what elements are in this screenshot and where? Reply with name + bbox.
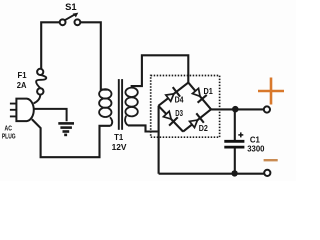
AC plug	[10, 99, 34, 122]
plus symbol (orange)	[258, 78, 284, 105]
svg-text:PLUG: PLUG	[2, 132, 16, 141]
svg-text:D2: D2	[199, 123, 208, 133]
svg-text:F1: F1	[18, 70, 27, 80]
secondary coil	[125, 88, 137, 117]
terminal minus	[264, 170, 270, 176]
wire primary bottom curl	[110, 117, 112, 126]
diode D1	[191, 87, 207, 103]
bridge dashed box	[151, 76, 220, 138]
wire bridge left vertex down to bottom rail	[158, 106, 160, 174]
svg-text:12V: 12V	[112, 142, 127, 152]
wire capacitor top lead	[234, 109, 236, 140]
capacitor C1	[224, 141, 244, 147]
bridge diamond	[158, 83, 211, 132]
switch S1	[60, 13, 81, 26]
wire plug bottom rail to primary bottom	[32, 119, 111, 157]
core	[119, 79, 122, 130]
svg-text:D1: D1	[204, 86, 214, 96]
wire bottom rail to minus terminal	[159, 173, 264, 175]
diode D3	[162, 110, 178, 126]
minus symbol (orange)	[264, 159, 278, 161]
wire left rail to switch	[41, 22, 60, 68]
wire capacitor bottom lead	[234, 148, 236, 174]
wire fuse link to plug	[34, 95, 41, 104]
capacitor polarity plus	[238, 132, 243, 137]
node junction top	[232, 106, 239, 113]
svg-text:2A: 2A	[17, 80, 27, 90]
diode D2	[188, 113, 204, 129]
wire switch to transformer primary top	[80, 22, 107, 89]
svg-text:D4: D4	[175, 94, 184, 104]
wire secondary bottom to junction	[128, 125, 158, 131]
svg-text:T1: T1	[114, 132, 123, 142]
wire bridge right vertex to plus terminal	[211, 108, 264, 110]
node junction bottom	[231, 170, 237, 176]
primary coil	[99, 89, 111, 117]
svg-text:D3: D3	[175, 108, 183, 118]
wire secondary top to bridge top	[131, 55, 189, 86]
fuse F1	[36, 69, 46, 95]
wire plug to ground	[34, 109, 66, 121]
ground	[58, 123, 74, 134]
wire secondary bottom curl	[125, 116, 128, 126]
diode D4	[165, 87, 180, 103]
svg-text:S1: S1	[65, 2, 77, 12]
svg-text:3300: 3300	[247, 143, 265, 153]
terminal plus	[264, 106, 270, 112]
